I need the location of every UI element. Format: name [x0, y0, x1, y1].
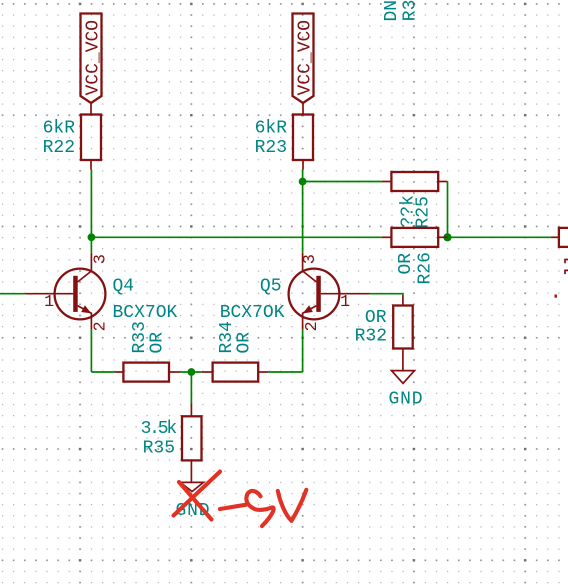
wire R33 to R34 — [180, 371, 202, 373]
junction node B — [443, 233, 451, 241]
junction below R22 — [88, 233, 96, 241]
svg-text:VCC_VCO: VCC_VCO — [296, 20, 316, 96]
svg-text:BCX7OK: BCX7OK — [113, 303, 178, 323]
svg-text:OR: OR — [396, 253, 416, 275]
resistor R33 — [115, 321, 180, 382]
svg-text:BCX7OK: BCX7OK — [220, 303, 285, 323]
wire R23 to Q5 collector — [302, 170, 304, 253]
Q5 base bar — [316, 276, 321, 312]
Q4 emitter arrow — [81, 305, 91, 313]
Q4 emitter pin — [78, 306, 92, 329]
Q5 base pin — [321, 293, 370, 295]
svg-text:R23: R23 — [255, 138, 287, 158]
power symbol VCC_VCO (right) — [293, 14, 316, 104]
junction below R23 — [299, 178, 307, 186]
transistor Q5 BCX70K (mirrored) — [220, 253, 370, 332]
svg-text:Q4: Q4 — [113, 276, 135, 296]
R32 bottom lead — [402, 349, 404, 371]
resistor R26 — [382, 228, 448, 285]
resistor R35 — [141, 403, 202, 482]
R35 body — [182, 416, 202, 460]
wire left edge to Q4 base — [0, 293, 25, 295]
Q5 emitter pin — [303, 306, 317, 329]
svg-text:R31: R31 — [401, 0, 421, 21]
R25 left lead — [382, 181, 392, 183]
Q4 collector pin — [78, 253, 92, 282]
wire R34 to Q5 emitter — [268, 371, 302, 373]
svg-text:R22: R22 — [43, 138, 75, 158]
svg-text:R35: R35 — [143, 439, 175, 459]
svg-text:OR: OR — [235, 332, 255, 354]
labels DNP / R31 of off-screen resistor — [382, 0, 421, 22]
R22 top lead — [90, 103, 92, 115]
ground triangle — [392, 371, 415, 384]
red annotation: handwritten 5 — [246, 491, 273, 526]
Q5 collector pin — [303, 253, 317, 282]
R23 body — [293, 115, 313, 161]
svg-text:OR: OR — [148, 332, 168, 354]
svg-text:OR: OR — [365, 308, 387, 328]
svg-text:R26: R26 — [416, 252, 436, 284]
resistor R22 — [43, 103, 101, 170]
R26 left lead — [382, 236, 392, 238]
R35 top lead — [190, 403, 192, 416]
svg-text:6kR: 6kR — [255, 119, 288, 139]
wire R22 to Q4 collector — [90, 170, 92, 253]
wire Q5 emitter up — [302, 329, 304, 372]
wire Q5 base to R32 — [370, 294, 403, 295]
power symbol VCC_VCO (left) — [81, 14, 104, 104]
tag outline — [293, 14, 314, 104]
wire Q4 emitter down — [90, 329, 92, 372]
R32 body — [393, 306, 413, 349]
resistor R32 — [355, 295, 413, 371]
svg-text:2: 2 — [91, 321, 110, 331]
Q4 base bar — [73, 276, 78, 312]
svg-text:3: 3 — [91, 254, 110, 264]
R23 bottom lead — [302, 160, 304, 170]
red annotation: X crossing out GND — [174, 472, 221, 520]
wire to R25 — [303, 181, 382, 183]
Q4 base pin — [25, 293, 73, 295]
R34 left lead — [202, 371, 213, 373]
svg-text:1: 1 — [340, 293, 350, 312]
svg-text:R32: R32 — [355, 327, 387, 347]
wire R25 down to node B — [447, 182, 449, 238]
red annotation: minus sign — [220, 505, 246, 509]
ground symbol below R35 — [176, 482, 211, 521]
R23 top lead — [302, 103, 304, 115]
svg-text:Q5: Q5 — [260, 276, 282, 296]
ground symbol below R32 — [389, 371, 424, 410]
svg-text:3.5k: 3.5k — [141, 419, 177, 439]
R25 body — [391, 172, 438, 191]
R32 top lead — [402, 295, 404, 306]
wire junction down to R35 — [190, 372, 192, 403]
R26 right lead — [438, 236, 447, 238]
resistor R23 — [255, 103, 313, 170]
red annotation: handwritten V — [278, 490, 307, 521]
ground triangle — [181, 482, 204, 491]
transistor Q4 BCX70K — [25, 253, 177, 332]
svg-text:3: 3 — [301, 254, 320, 264]
R26 body — [391, 228, 438, 247]
junction emitter node — [188, 368, 196, 376]
edge resistor left lead — [551, 236, 559, 238]
svg-text:6kR: 6kR — [43, 119, 76, 139]
R35 bottom lead — [190, 460, 192, 482]
svg-text:R25: R25 — [413, 196, 433, 228]
edge resistor label fragment — [565, 260, 568, 264]
Q5 emitter arrow — [303, 305, 313, 313]
svg-text:DNP: DNP — [382, 0, 402, 22]
edge resistor body (clipped) — [559, 228, 568, 247]
R33 left lead — [115, 371, 124, 373]
Q4 body circle — [55, 269, 106, 320]
wire to R33 — [91, 371, 114, 373]
edge resistor label fragment — [565, 270, 568, 274]
R22 bottom lead — [90, 160, 92, 170]
R34 right lead — [258, 371, 268, 373]
R25 right lead — [438, 181, 447, 183]
stray red mark — [555, 295, 557, 298]
resistor at right edge (partial) — [551, 228, 568, 298]
svg-text:1: 1 — [44, 293, 54, 312]
wire node B to right edge resistor — [448, 236, 551, 238]
R33 body — [123, 363, 169, 382]
svg-text:GND: GND — [389, 390, 424, 410]
wire horizontal bus at y=237 — [91, 236, 381, 238]
R34 body — [213, 363, 259, 382]
svg-text:2: 2 — [303, 321, 322, 331]
svg-text:VCC_VCO: VCC_VCO — [84, 20, 104, 96]
resistor R34 — [202, 321, 268, 382]
tag outline — [81, 14, 102, 104]
R22 body — [81, 115, 101, 161]
R33 right lead — [169, 371, 180, 373]
resistor R25 — [382, 172, 448, 229]
Q5 body circle — [289, 269, 340, 320]
